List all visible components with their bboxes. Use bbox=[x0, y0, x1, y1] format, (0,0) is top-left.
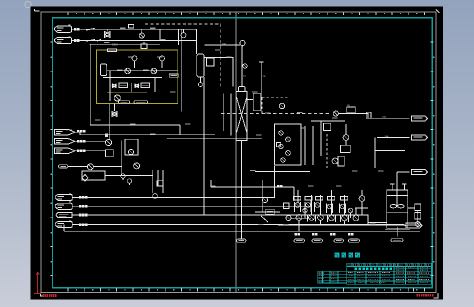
pump left PL bbox=[262, 197, 267, 202]
instrument I5 bbox=[121, 174, 125, 180]
box cluster x323 bbox=[323, 123, 330, 130]
frame ruler digits vertical bbox=[51, 57, 435, 263]
wire left pump area bbox=[255, 180, 280, 212]
outlet flag R3 bbox=[412, 169, 428, 174]
wire pump suction header y225.2 bbox=[278, 224, 420, 226]
pill label under column bbox=[237, 239, 247, 242]
tank box E4 bbox=[125, 139, 138, 155]
yellow highlight rectangle bbox=[97, 50, 178, 103]
viewport corner mark TR bbox=[436, 10, 439, 13]
tank T1 agitator loops bbox=[390, 205, 397, 208]
title block header row line bbox=[347, 266, 432, 281]
title block verticals bbox=[352, 263, 425, 266]
pill row 3 bbox=[334, 239, 344, 242]
wire reflux bbox=[247, 99, 253, 101]
instrument I4 overhead bbox=[240, 40, 245, 46]
watermark circle top-left bbox=[25, 1, 31, 7]
small box beside drum D2 bbox=[207, 58, 215, 66]
equipment box E5 bbox=[82, 171, 105, 180]
tick under title block bbox=[413, 288, 415, 291]
outlet arrow bottom right bbox=[405, 225, 407, 227]
pump P7 bbox=[87, 164, 93, 170]
drum D2 bbox=[197, 54, 204, 77]
wire bottom line L4 bbox=[72, 224, 404, 226]
yellow inner line bbox=[107, 91, 147, 93]
equipment box E1 bbox=[119, 83, 128, 87]
flag F5 bbox=[54, 148, 75, 153]
wire vertical x178.6 bbox=[178, 29, 180, 45]
wire main process line in yellow box bbox=[107, 70, 178, 72]
wire y187 drops bbox=[211, 180, 294, 201]
pump P13 bbox=[343, 135, 349, 141]
frame ruler ticks horizontal bbox=[68, 12, 424, 291]
pill row 4 bbox=[349, 239, 360, 242]
pump big B2 bbox=[309, 215, 315, 221]
box in E7 bbox=[277, 143, 281, 147]
flag F9 bbox=[55, 220, 72, 227]
pump P1 bbox=[125, 68, 131, 74]
viewport corner mark BL bbox=[41, 294, 44, 296]
paper border gray rect bbox=[41, 12, 236, 293]
pump tag text 4 bbox=[348, 233, 353, 236]
wire right region L-shape bbox=[374, 138, 376, 169]
wire above yellow box bbox=[90, 43, 161, 45]
pump tag text 2 bbox=[312, 233, 317, 236]
wire after VC bbox=[338, 114, 409, 119]
wire mid line y138 bbox=[167, 137, 262, 139]
control valve V1 bbox=[105, 29, 111, 37]
column C1 cap bbox=[239, 87, 246, 92]
dashed interconnect y113 bbox=[221, 112, 331, 114]
wire V4 riser bbox=[110, 103, 115, 139]
pump small S5 bbox=[340, 204, 345, 209]
wire small verticals center bbox=[153, 170, 163, 193]
stirred tank T1 body bbox=[387, 190, 408, 228]
valve V4 bowtie bbox=[112, 112, 117, 117]
wire left drop bbox=[89, 44, 91, 125]
wire mid manifold line3 bbox=[75, 150, 106, 152]
wire feed line 2 bbox=[72, 40, 197, 42]
pump P11 bbox=[286, 151, 291, 156]
pump P3 bbox=[114, 95, 120, 101]
outlet flag R1 bbox=[412, 116, 428, 121]
instrument I3 bbox=[160, 56, 165, 68]
title block header tiny text bbox=[348, 264, 430, 266]
pill row 1 bbox=[294, 239, 305, 242]
valve cluster top center bbox=[141, 42, 147, 49]
pump P6 bbox=[134, 163, 140, 169]
label box on yellow top bbox=[108, 49, 117, 52]
pump tag text 3 bbox=[330, 233, 335, 236]
pump label tag 1 bbox=[294, 197, 301, 200]
pump P0 circle bbox=[139, 33, 144, 38]
wire P7 link bbox=[68, 166, 122, 168]
left pump diagonal mark bbox=[261, 201, 268, 222]
pump mid extra 2 bbox=[348, 208, 352, 212]
pump P9 bbox=[286, 137, 291, 142]
equipment box E3 bbox=[105, 150, 113, 157]
wire bottom manifold L5 bbox=[64, 230, 420, 232]
pump label tag 2 bbox=[305, 197, 312, 200]
wire to flag R2 bbox=[377, 137, 410, 139]
title block main dividers bbox=[355, 263, 431, 284]
wire bottom line L2 bbox=[72, 200, 311, 206]
wire mid manifold line2 bbox=[75, 140, 106, 142]
wire PT connectors bbox=[355, 190, 368, 215]
mid column instrument bbox=[260, 62, 262, 102]
pump PD bbox=[279, 103, 284, 108]
wire mid right connectors bbox=[311, 121, 346, 156]
viewport corner mark TL bbox=[35, 9, 40, 11]
wire step从125到135 bbox=[179, 125, 181, 135]
pump small S3 bbox=[315, 203, 320, 208]
tank T1 agitator shaft bbox=[396, 178, 398, 206]
pump small S2 bbox=[306, 203, 311, 208]
pump PT bbox=[359, 196, 365, 202]
pill row 5 bbox=[391, 239, 403, 242]
label box right of yellow bbox=[169, 74, 178, 77]
diamond node bbox=[82, 175, 88, 182]
label box PL bbox=[266, 209, 275, 214]
line label F3 bbox=[77, 130, 86, 133]
equipment frame E7 bbox=[275, 124, 302, 165]
pump big B1 bbox=[296, 215, 302, 221]
pump small S1 bbox=[295, 203, 300, 208]
pump P2 bbox=[151, 68, 157, 74]
pump label tag 4 bbox=[328, 197, 335, 200]
dashed vertical x327 bbox=[326, 134, 328, 168]
line label F9 bbox=[79, 223, 88, 226]
wire drum D2 feed bbox=[197, 29, 201, 82]
red watermark text bottom-left bbox=[43, 294, 57, 297]
line label F8 bbox=[79, 214, 88, 217]
flag F2 feed stream 2 bbox=[55, 36, 72, 43]
wire connector y171.5 bbox=[255, 171, 310, 173]
small box above line A bbox=[129, 25, 134, 29]
instrument I8 under drum bbox=[198, 82, 202, 87]
column C1 packing X bbox=[237, 97, 247, 133]
svg-text:ZG: ZG bbox=[243, 76, 246, 78]
wire L5 left drop bbox=[63, 225, 65, 232]
pump P10 bbox=[279, 144, 283, 148]
pump big B4 bbox=[329, 215, 335, 221]
wire column side pair bbox=[224, 94, 231, 136]
pump P14 bbox=[332, 158, 338, 164]
pump tag text 1 bbox=[295, 233, 300, 236]
box E6 bbox=[157, 181, 163, 186]
pump big B3 bbox=[318, 215, 324, 221]
instrument stack mid-right bbox=[347, 107, 356, 113]
pump P4 bbox=[106, 139, 112, 145]
wire feed line 1 bbox=[72, 28, 197, 30]
title block outer bbox=[347, 263, 432, 284]
instrument I2 bbox=[132, 56, 137, 68]
line label F7 bbox=[79, 205, 88, 208]
wire overhead stem to column bbox=[241, 46, 243, 87]
pill label P7 bbox=[59, 165, 69, 168]
wire bottom line L3 bbox=[72, 215, 368, 225]
wire connector y187 bbox=[211, 186, 294, 188]
svg-text:26N: 26N bbox=[222, 43, 226, 45]
wire tank left feed bbox=[368, 222, 387, 224]
wire pump risers bbox=[298, 190, 356, 215]
pill label yellow-2 bbox=[134, 101, 148, 104]
drum D1 bbox=[101, 64, 107, 76]
svg-text:26A: 26A bbox=[382, 116, 386, 119]
pump casings top row bbox=[295, 202, 346, 213]
wire P0 stem bbox=[141, 29, 143, 33]
svg-text:26A: 26A bbox=[385, 135, 389, 138]
wire pump discharge header y218.7 bbox=[291, 218, 311, 220]
outlet flag R2 bbox=[412, 135, 428, 140]
pill label yellow-1 bbox=[119, 101, 130, 104]
pump P8 bbox=[279, 131, 283, 135]
title block cyan title text bbox=[355, 268, 393, 271]
wire upper mid line y125 bbox=[90, 124, 180, 126]
wire mid manifold line1 bbox=[75, 132, 215, 135]
tank bottom drop bbox=[396, 227, 398, 237]
line label F5 bbox=[77, 150, 86, 153]
wire column overhead bbox=[205, 44, 241, 46]
line label F6 bbox=[79, 196, 88, 199]
instrument IC bbox=[243, 64, 247, 68]
pill row 2 bbox=[312, 239, 323, 242]
flag F3 bbox=[54, 130, 75, 135]
wire region boundary right bbox=[375, 150, 405, 152]
wire pump drops to manifold bbox=[299, 220, 345, 231]
wire right vertical of yellow area bbox=[180, 29, 182, 111]
cyan drawing note text bbox=[335, 253, 361, 258]
battery limit dashed vertical bbox=[220, 24, 222, 88]
valve V3 bowtie bbox=[135, 84, 139, 88]
wire bottom line L1 bbox=[72, 166, 274, 197]
instrument I1 bbox=[181, 29, 186, 38]
wire column bottoms bbox=[241, 141, 243, 239]
wire E5 to center bbox=[105, 175, 153, 177]
pump P12 bbox=[281, 158, 285, 162]
wire E4 drop bbox=[121, 141, 123, 176]
flag F8 bbox=[56, 212, 73, 217]
paper border gray rect right half bbox=[41, 12, 436, 293]
tiny line number labels bbox=[95, 28, 384, 224]
dashed box around pump PD bbox=[262, 97, 289, 113]
tank T1 head seam bbox=[387, 196, 408, 213]
title block small text rows bbox=[319, 268, 430, 283]
wire tank to instruments bbox=[408, 208, 418, 222]
equipment box E2 bbox=[141, 83, 150, 87]
pump extra left bbox=[286, 215, 291, 220]
tank T1 base line bbox=[385, 228, 410, 230]
revision table bbox=[318, 271, 347, 283]
wire extra risers pump row bbox=[305, 213, 351, 218]
svg-text:26DN: 26DN bbox=[112, 45, 118, 47]
box right of P14 bbox=[338, 156, 344, 166]
tank T1 top piping bbox=[390, 172, 410, 190]
instrument tank IT bbox=[415, 222, 420, 227]
pump casing bars bottom row bbox=[308, 215, 349, 223]
step tower on line to R1 bbox=[366, 112, 371, 118]
flag F4 bbox=[54, 139, 75, 144]
red UCS icon vertical bbox=[34, 272, 42, 294]
wire drum to column top bbox=[204, 58, 233, 87]
flag F1 feed stream 1 bbox=[55, 25, 72, 32]
battery limit dashed horizontal top bbox=[145, 23, 221, 25]
cyan drawing frame bbox=[52, 18, 432, 288]
pump label tag 5 bbox=[341, 197, 348, 200]
pump mid extra 1 bbox=[303, 208, 307, 212]
frame ruler digits bbox=[76, 13, 417, 291]
valve V2 bowtie bbox=[113, 84, 117, 88]
red watermark text bottom-right bbox=[416, 294, 433, 297]
tick on top of v-line bbox=[259, 61, 264, 63]
wire long vertical x204 bbox=[203, 77, 205, 215]
pump small S4 bbox=[327, 204, 332, 209]
node box mid bbox=[105, 133, 108, 136]
pump big B5 bbox=[342, 215, 348, 221]
pump big B6 bbox=[353, 215, 359, 221]
svg-text:26 DN: 26 DN bbox=[66, 130, 73, 132]
line label F1 bbox=[74, 28, 79, 31]
flag F6 bbox=[55, 193, 72, 200]
line label F4 bbox=[77, 140, 86, 143]
wire secondary line in yellow box bbox=[103, 77, 162, 79]
viewport corner mark BR bbox=[434, 293, 438, 298]
label on connector y187 bbox=[277, 185, 282, 188]
line label F2 bbox=[74, 39, 79, 42]
wire vertical between feed lines bbox=[159, 29, 161, 40]
instrument I7 bbox=[153, 193, 158, 198]
tank side instruments bbox=[415, 204, 421, 211]
valve VC circle bbox=[333, 111, 338, 116]
frame ruler ticks vertical bbox=[50, 42, 433, 276]
box under IC bbox=[253, 93, 261, 111]
box left of pump row bbox=[284, 203, 290, 209]
reducer marks on feed lines bbox=[86, 28, 101, 41]
flag F7 bbox=[55, 202, 72, 209]
pump P5 bbox=[128, 149, 133, 154]
box under P13 bbox=[341, 145, 351, 152]
wire yellow box verticals bbox=[110, 71, 155, 101]
wire E7 risers bbox=[305, 126, 313, 165]
column C1 body bbox=[236, 92, 247, 141]
instrument I6 bbox=[127, 179, 131, 185]
outlet flag R4 bbox=[406, 223, 422, 228]
pump label tag 3 bbox=[316, 197, 323, 200]
